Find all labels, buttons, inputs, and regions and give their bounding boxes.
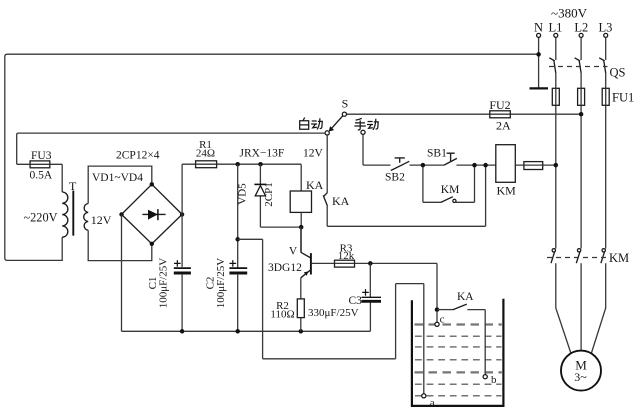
svg-text:3DG12: 3DG12 <box>268 262 302 274</box>
svg-text:T: T <box>69 179 77 193</box>
svg-text:100μF/25V: 100μF/25V <box>215 258 227 309</box>
svg-text:2CP1: 2CP1 <box>263 182 275 206</box>
svg-text:a: a <box>430 397 435 409</box>
svg-text:V: V <box>289 246 298 258</box>
svg-text:330μF/25V: 330μF/25V <box>308 307 359 319</box>
svg-text:KA: KA <box>306 178 324 192</box>
svg-text:S: S <box>342 97 349 111</box>
svg-text:2A: 2A <box>496 119 511 133</box>
svg-text:FU3: FU3 <box>31 150 52 162</box>
svg-text:N: N <box>534 21 543 35</box>
svg-text:0.5A: 0.5A <box>30 170 53 182</box>
svg-text:L2: L2 <box>574 21 588 35</box>
svg-text:2CP12×4: 2CP12×4 <box>116 150 160 162</box>
svg-text:VD1~VD4: VD1~VD4 <box>92 172 143 184</box>
svg-text:JRX−13F: JRX−13F <box>240 147 285 159</box>
svg-text:100μF/25V: 100μF/25V <box>158 258 170 309</box>
svg-text:L3: L3 <box>599 21 613 35</box>
svg-text:c: c <box>440 314 445 326</box>
svg-text:~380V: ~380V <box>551 6 588 21</box>
svg-text:FU1: FU1 <box>612 91 634 105</box>
svg-text:KA: KA <box>332 194 350 208</box>
svg-text:110Ω: 110Ω <box>270 309 294 321</box>
svg-text:b: b <box>491 374 497 386</box>
svg-text:12V: 12V <box>91 213 112 227</box>
svg-text:3~: 3~ <box>574 370 587 384</box>
svg-text:KA: KA <box>457 291 474 303</box>
svg-text:~220V: ~220V <box>24 210 58 224</box>
svg-text:SB1: SB1 <box>427 148 447 160</box>
svg-text:FU2: FU2 <box>489 98 510 112</box>
svg-text:KM: KM <box>497 184 517 198</box>
svg-text:KM: KM <box>609 251 629 265</box>
svg-text:24Ω: 24Ω <box>196 148 215 160</box>
svg-text:QS: QS <box>610 66 626 80</box>
svg-text:12k: 12k <box>338 250 355 262</box>
svg-text:SB2: SB2 <box>385 172 405 184</box>
svg-text:KM: KM <box>441 184 460 196</box>
svg-text:C3: C3 <box>349 295 363 307</box>
svg-text:12V: 12V <box>303 147 324 159</box>
svg-text:L1: L1 <box>549 21 563 35</box>
